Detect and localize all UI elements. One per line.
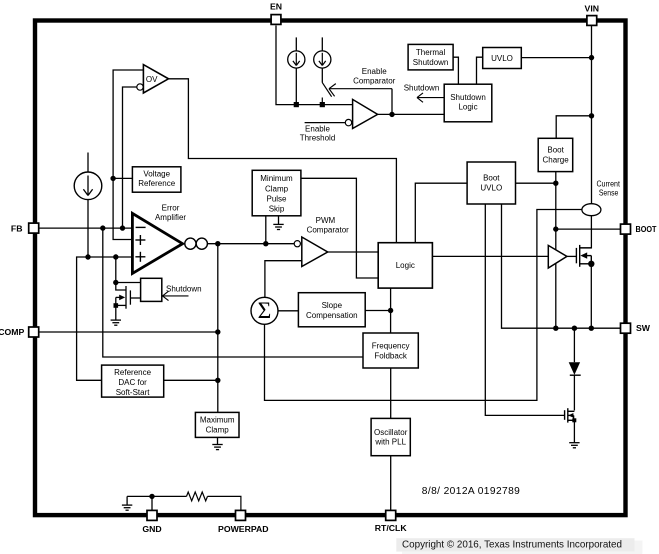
pin GND [142, 510, 161, 533]
pin SW [621, 323, 651, 333]
box shutdown driver [141, 278, 162, 301]
wire soft-start summing node [77, 257, 133, 380]
wire Boot UVLO sense legs [485, 204, 620, 415]
svg-text:Comparator: Comparator [353, 77, 396, 86]
svg-text:Σ: Σ [258, 298, 272, 324]
svg-text:Shutdown: Shutdown [404, 83, 440, 92]
wire EN pin net [276, 26, 353, 105]
svg-text:RT/CLK: RT/CLK [375, 523, 408, 533]
gm output stage circles [185, 238, 208, 249]
pin COMP [0, 327, 39, 337]
box Minimum Clamp Pulse Skip [252, 170, 301, 216]
current source Ih (hysteresis) [314, 37, 331, 82]
label copyright [396, 538, 642, 554]
svg-text:EN: EN [270, 1, 282, 11]
junction COMP pin on rail [215, 329, 220, 334]
junction boot rail on SW [553, 326, 558, 331]
svg-text:Charge: Charge [542, 155, 569, 164]
box Shutdown Logic [444, 84, 492, 122]
svg-text:Skip: Skip [269, 205, 285, 214]
diode body (SW to low-side) [569, 328, 581, 410]
wire PWM output to Logic [328, 251, 379, 253]
wire FB net [39, 227, 133, 229]
wire FB to frequency foldback [103, 228, 363, 357]
box Oscillator with PLL [371, 418, 410, 455]
svg-text:Amplifier: Amplifier [155, 213, 186, 222]
ground (minimum clamp) [273, 216, 283, 230]
box UVLO [483, 48, 522, 69]
node Enable Threshold [300, 123, 345, 143]
switch hysteresis [322, 83, 392, 105]
svg-text:8/8/ 2012A 0192789: 8/8/ 2012A 0192789 [422, 486, 520, 497]
wire OV output to Logic [169, 79, 397, 243]
comparator OV [137, 65, 169, 93]
box Boot UVLO [467, 162, 515, 204]
svg-text:Boot: Boot [483, 174, 500, 183]
junction boot rail [553, 181, 558, 186]
svg-text:Enable: Enable [362, 67, 387, 76]
label Shutdown with arrow [163, 284, 202, 300]
ground (shutdown FET source) [111, 305, 121, 325]
junction high-side source on SW [589, 326, 594, 331]
svg-text:UVLO: UVLO [480, 184, 502, 193]
wire COMP pin [39, 331, 218, 333]
svg-text:PWM: PWM [316, 216, 336, 225]
svg-text:DAC for: DAC for [118, 378, 147, 387]
svg-text:COMP: COMP [0, 327, 25, 337]
wire Vref to OV top input [113, 70, 143, 240]
current source Ip (EN pullup) [288, 37, 305, 104]
wire current sense to high-side FET drain [580, 216, 592, 248]
svg-text:Logic: Logic [458, 103, 477, 112]
junction FB-softstart [100, 225, 105, 230]
op-amp Error Amplifier [132, 203, 186, 273]
wire Frequency Foldback to Oscillator [390, 368, 392, 418]
junction VIN-UVLO [589, 55, 594, 60]
svg-text:Copyright © 2016, Texas Instru: Copyright © 2016, Texas Instruments Inco… [402, 540, 622, 551]
box Reference DAC for Soft-Start [102, 365, 164, 397]
junction shutdown FET drain [113, 280, 118, 285]
svg-text:Minimum: Minimum [260, 174, 293, 183]
current sense element [582, 179, 621, 215]
junction current source on SS node [85, 254, 90, 259]
wire driver to gate [567, 255, 577, 257]
wire drain to shutdown block [116, 282, 141, 284]
transistor low-side MOSFET [565, 408, 575, 422]
wire COMP vertical rail [217, 244, 219, 413]
wire minimum clamp to Logic [301, 178, 378, 278]
pin BOOT [621, 224, 658, 234]
svg-text:Sense: Sense [599, 189, 619, 198]
wire GND pin riser [151, 496, 153, 510]
svg-text:Comparator: Comparator [307, 225, 350, 234]
pin POWERPAD [218, 510, 269, 533]
svg-text:Error: Error [162, 203, 180, 212]
svg-text:Oscillator: Oscillator [374, 428, 408, 437]
svg-text:POWERPAD: POWERPAD [218, 524, 269, 534]
wire FB to OV inverting input [123, 87, 137, 228]
wire COMP node (EA output) [207, 243, 294, 245]
svg-text:Shutdown: Shutdown [166, 284, 202, 293]
svg-text:Shutdown: Shutdown [413, 58, 449, 67]
svg-text:Slope: Slope [322, 301, 343, 310]
svg-text:GND: GND [142, 524, 161, 534]
transistor high-side MOSFET [576, 245, 591, 267]
svg-text:Reference: Reference [138, 179, 175, 188]
svg-text:Shutdown: Shutdown [450, 93, 486, 102]
svg-text:Current: Current [596, 179, 620, 188]
wire high-side source to SW [590, 264, 592, 328]
wire sigma to PWM lower input [265, 261, 302, 298]
junction min-clamp tap [263, 241, 268, 246]
junction DAC output on rail [215, 378, 220, 383]
pin VIN [585, 3, 599, 25]
wire switch control from comparator output [391, 89, 393, 115]
wire sigma current feedback path [265, 210, 582, 401]
comparator PWM [294, 216, 349, 267]
svg-text:BOOT: BOOT [636, 224, 658, 234]
wire DAC to COMP rail [164, 379, 218, 381]
wire Logic to Frequency Foldback [390, 288, 392, 333]
wire Logic to high-side driver [432, 255, 548, 257]
svg-text:Maximum: Maximum [200, 416, 235, 425]
box Frequency Foldback [363, 333, 418, 368]
svg-text:VIN: VIN [585, 3, 599, 13]
svg-text:Boot: Boot [547, 145, 564, 154]
wire Logic to Boot UVLO [415, 183, 467, 243]
svg-text:Voltage: Voltage [143, 169, 170, 178]
pin RT/CLK [375, 510, 408, 533]
svg-text:Frequency: Frequency [372, 342, 410, 351]
box Slope Compensation [298, 293, 365, 327]
junction diode on SW [572, 326, 577, 331]
svg-text:SW: SW [636, 323, 651, 333]
comparator Enable [345, 67, 395, 128]
svg-text:FB: FB [11, 223, 23, 233]
svg-text:Clamp: Clamp [265, 184, 289, 193]
svg-text:Compensation: Compensation [306, 311, 358, 320]
junction Ip on EN net [294, 102, 299, 107]
wire slope compensation to logic rail [365, 310, 390, 312]
svg-text:Threshold: Threshold [300, 134, 336, 143]
junction GND riser [149, 494, 154, 499]
junction Ih on EN net [320, 102, 325, 107]
junction VIN-BootCharge [589, 113, 594, 118]
wire VIN rail [591, 26, 593, 205]
junction Vref tap [110, 176, 115, 181]
wire UVLO to shutdown logic [477, 57, 483, 84]
summer sigma [251, 297, 278, 324]
wire sigma to slope compensation [278, 310, 298, 312]
svg-text:Thermal: Thermal [416, 48, 446, 57]
wire Boot Charge output rail [555, 172, 557, 329]
svg-text:Reference: Reference [114, 368, 151, 377]
wire minimum clamp to COMP node [265, 216, 267, 244]
svg-text:Enable: Enable [305, 125, 330, 134]
svg-text:UVLO: UVLO [491, 54, 513, 63]
svg-text:Pulse: Pulse [266, 195, 287, 204]
label Shutdown signal with arrow [404, 83, 444, 102]
box Maximum Clamp [195, 412, 239, 437]
svg-text:Clamp: Clamp [206, 425, 230, 434]
box Voltage Reference [132, 167, 181, 192]
ground (maximum clamp) [212, 437, 222, 449]
wire Vref tap to Voltage Reference [113, 177, 132, 179]
wire VIN to Boot Charge [556, 116, 591, 138]
ground (GND pin) [122, 496, 132, 510]
svg-text:with PLL: with PLL [374, 438, 406, 447]
junction shutdown FET on SS node [113, 254, 118, 259]
junction FB-OV [120, 225, 125, 230]
wire Oscillator to RT/CLK pin [390, 456, 392, 511]
wire GND to POWERPAD with resistor [127, 492, 241, 510]
wire Boot UVLO to boot rail [516, 182, 556, 184]
svg-text:Logic: Logic [396, 261, 415, 270]
svg-text:OV: OV [146, 75, 158, 84]
box Thermal Shutdown [408, 44, 453, 70]
junction boot rail to BOOT pin [553, 226, 558, 231]
box Boot Charge [538, 138, 573, 171]
junction EA output to COMP pin [215, 241, 220, 246]
wire UVLO to VIN rail [521, 57, 591, 59]
svg-text:Soft-Start: Soft-Start [116, 388, 151, 397]
wire thermal shutdown to shutdown logic [453, 57, 458, 84]
pin FB [11, 223, 39, 233]
buffer high-side gate driver [548, 245, 567, 268]
svg-text:Foldback: Foldback [374, 352, 407, 361]
pin EN [270, 1, 282, 24]
transistor Q-shutdown (pulls down SS node) [116, 257, 141, 309]
wire enable comparator output [378, 113, 445, 115]
ground (low-side source) [569, 420, 579, 448]
current source I-softstart [74, 153, 102, 258]
junction slope comp on logic rail [388, 308, 393, 313]
junction enable output [389, 112, 394, 117]
box Logic [378, 243, 432, 288]
wire BOOT pin [556, 228, 621, 230]
